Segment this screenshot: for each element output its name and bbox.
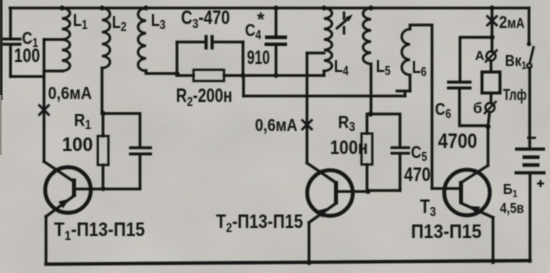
wire L6 top bracket	[410, 25, 432, 189]
svg-text:2мА: 2мА	[499, 13, 525, 33]
wire T2 emitter vertical	[308, 223, 311, 264]
wire L6 riser	[404, 91, 407, 96]
resistor R2	[194, 70, 225, 81]
inductor L2	[102, 8, 110, 68]
transistor T2 emitter arrow	[317, 208, 328, 218]
capacitor C5 top lead	[370, 114, 400, 146]
transistor T3 emitter arrow	[469, 206, 481, 214]
wire R2 right	[224, 74, 243, 77]
resistor R3 bottom lead	[366, 165, 369, 192]
inductor L5	[363, 8, 371, 64]
resistor R1	[98, 136, 109, 165]
wire switch to battery	[528, 68, 531, 148]
bottom rail wire	[46, 261, 530, 265]
wire T2 base lead	[337, 190, 368, 193]
svg-text:470: 470	[404, 164, 431, 186]
resistor R3 top lead	[366, 114, 369, 134]
battery plus sign	[537, 180, 544, 187]
wire L1 bottom link	[44, 70, 62, 73]
wire C3 right vertical	[242, 42, 245, 76]
wire C1 to node	[11, 75, 45, 78]
wire node to C4 and L4	[243, 74, 324, 77]
wire L4 bottom riser	[323, 71, 326, 76]
wire C5 bottom to base node	[368, 189, 400, 192]
resistor R1 bottom lead	[102, 165, 105, 189]
capacitor C1 lead bottom	[9, 46, 12, 77]
wire cap2 bottom lead	[139, 156, 142, 189]
capacitor C5 bottom lead	[399, 155, 402, 191]
transistor T3	[444, 170, 490, 216]
svg-text:R2-200н: R2-200н	[176, 84, 232, 109]
wire L3 bottom to C3 block	[146, 71, 177, 74]
inductor L4	[324, 8, 332, 71]
capacitor C4 plates	[265, 36, 288, 47]
transistor T1 emitter arrow	[58, 199, 69, 209]
wire 2mA measuring line	[491, 8, 494, 52]
wire cap2 top lead	[103, 114, 140, 147]
wire C3 right	[214, 41, 244, 44]
capacitor C5 plates	[391, 146, 411, 154]
capacitor C2 plates (unlabeled)	[129, 146, 152, 155]
svg-text:4,5в: 4,5в	[500, 200, 524, 217]
wire T3 base lead	[432, 187, 459, 190]
wire L6 bottom vertical	[409, 75, 412, 91]
battery B1	[515, 137, 546, 175]
transistor T2	[307, 170, 353, 216]
top rail wire	[10, 7, 529, 10]
measuring cross X3 2mA	[487, 16, 498, 27]
wire T1 base line	[76, 188, 140, 191]
telephone capsule Tlf	[482, 72, 500, 93]
svg-text:А: А	[475, 48, 485, 63]
wire L4 tap vertical (T2 collector line)	[306, 53, 309, 163]
wire jack A to capsule	[490, 61, 493, 72]
wire T1 emitter vertical	[45, 217, 48, 265]
wire T2 emitter diagonal	[309, 204, 335, 223]
svg-text:C3-470: C3-470	[181, 7, 230, 32]
resistor R3	[362, 134, 373, 165]
svg-text:910: 910	[247, 47, 270, 69]
svg-text:Тлф: Тлф	[503, 85, 527, 103]
wire T1 emitter diagonal	[46, 197, 73, 217]
wire L6 bottom link	[397, 90, 410, 93]
svg-text:100н: 100н	[330, 137, 368, 158]
svg-text:0,6мА: 0,6мА	[48, 84, 92, 103]
capacitor C6 top bracket	[460, 37, 492, 80]
capacitor C1 plates	[2, 38, 22, 46]
measuring cross X2 0.6mA	[302, 120, 313, 131]
wire L2 bottom lead	[101, 68, 104, 113]
wire capsule to jack b	[490, 93, 493, 103]
wire collector line T1	[43, 40, 46, 162]
measuring cross X1 0.6mA	[39, 105, 50, 116]
wire C3 left vertical	[176, 42, 179, 76]
svg-text:*: *	[257, 10, 265, 31]
jack contact A	[485, 50, 498, 63]
svg-text:0,6мА: 0,6мА	[255, 116, 298, 135]
jack contact b	[484, 101, 497, 114]
transistor T1	[45, 167, 91, 213]
inductor L3	[138, 8, 146, 71]
wire T3 emitter vertical	[492, 218, 495, 263]
switch Vk1 lever	[527, 46, 534, 68]
inductor L1	[62, 8, 70, 71]
svg-text:100: 100	[62, 135, 93, 157]
capacitor C1 lead top	[9, 8, 12, 38]
wire R2 left	[177, 74, 194, 77]
capacitor C6 bottom bracket	[460, 89, 489, 125]
inductor L6	[402, 29, 410, 75]
variable capacitor arrow symbol	[336, 12, 350, 35]
capacitor C3 plates	[205, 35, 214, 50]
wire T3 collector diagonal	[462, 127, 488, 183]
svg-text:П13-П15: П13-П15	[411, 220, 482, 242]
wire T1 collector diagonal	[44, 162, 73, 182]
wire L5 bottom lead	[370, 64, 373, 114]
wire battery bottom lead	[529, 175, 532, 262]
wire switch top lead	[528, 8, 531, 44]
resistor R1 top lead	[102, 113, 105, 136]
capacitor C4 bottom lead	[275, 46, 278, 76]
svg-text:100: 100	[14, 45, 40, 67]
wire T3 emitter diagonal	[462, 204, 493, 218]
wire jack b down to node	[488, 112, 490, 126]
wire jog down from node	[242, 76, 245, 97]
scan edge	[0, 0, 3, 100]
wire L4 tap link	[307, 52, 324, 55]
wire T2 collector diagonal	[307, 163, 335, 182]
wire C3 left	[177, 41, 205, 44]
svg-text:б: б	[473, 100, 482, 117]
wire mid horizontal to L6	[244, 95, 406, 98]
capacitor C4 top lead	[275, 8, 278, 36]
wire L1 tap link	[44, 38, 62, 41]
svg-text:4700: 4700	[438, 130, 477, 154]
capacitor C6 plates	[447, 81, 472, 90]
